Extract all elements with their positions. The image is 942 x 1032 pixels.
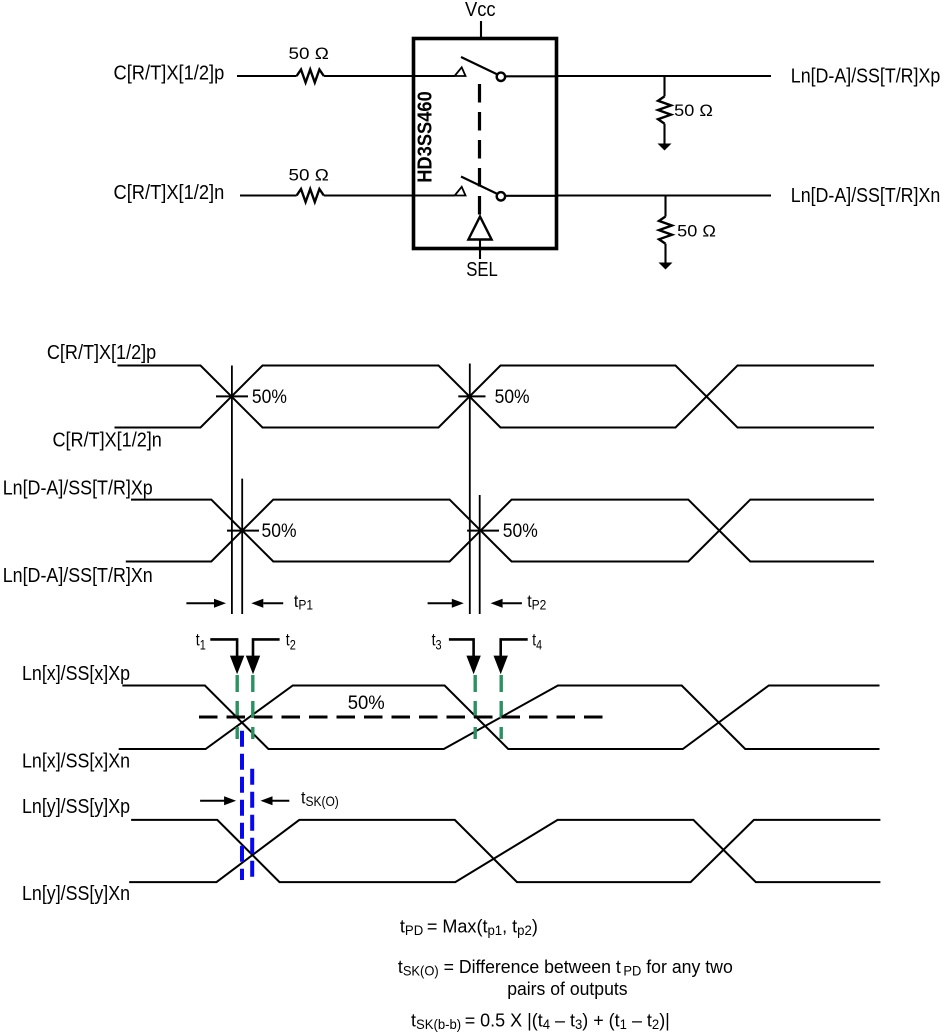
wire vertical marker V1b — [241, 479, 243, 614]
op-amp U1 HD3SS460 box — [414, 39, 557, 249]
wire R4 to ground — [664, 244, 666, 263]
svg-text:Vcc: Vcc — [465, 0, 496, 21]
wire output p — [557, 75, 772, 77]
svg-text:tSK(O) = Difference between t: tSK(O) = Difference between t PD for any… — [398, 956, 733, 978]
callout t4 line — [501, 639, 528, 658]
switch SW1 arm — [461, 57, 498, 75]
svg-text:50%: 50% — [503, 521, 538, 542]
arrow t4 — [494, 656, 508, 675]
svg-text:50 Ω: 50 Ω — [289, 44, 329, 63]
arrow t1 — [230, 656, 244, 675]
wire waveform1 n — [115, 366, 875, 428]
label tP2 — [527, 591, 546, 613]
dimension tP1 right arrow — [263, 602, 283, 604]
wire vertical marker V2b — [479, 495, 481, 614]
wire waveform2 n — [126, 500, 874, 562]
switch SW1 throw contact triangle — [455, 67, 466, 76]
marker t2 green dashed — [251, 675, 254, 739]
wire waveform2 p — [131, 500, 874, 562]
svg-text:pairs of outputs: pairs of outputs — [507, 978, 627, 999]
svg-text:50 Ω: 50 Ω — [674, 101, 713, 120]
resistor R4 zigzag — [659, 217, 672, 244]
wire vertical marker V2a — [469, 364, 471, 615]
label tP1 — [294, 591, 313, 613]
svg-text:50 Ω: 50 Ω — [289, 166, 329, 185]
dimension tP1 left arrow — [186, 602, 215, 604]
switch SW2 throw contact triangle — [455, 187, 466, 196]
dimension tSK(O) left arrow — [200, 800, 225, 802]
wire input p left segment — [237, 75, 297, 77]
svg-text:50%: 50% — [262, 521, 297, 542]
wire input n left segment — [240, 194, 297, 196]
wire input p to box — [324, 75, 414, 77]
svg-text:SEL: SEL — [466, 259, 498, 281]
wire vertical marker V1a — [231, 366, 233, 615]
svg-text:C[R/T]X[1/2]n: C[R/T]X[1/2]n — [114, 182, 225, 204]
wire inside box p — [415, 75, 455, 77]
wire SEL stem — [479, 240, 481, 260]
dimension tP2 right arrow — [503, 602, 522, 604]
equation tSK(O) — [398, 956, 733, 978]
wire from SW2 to box edge — [505, 195, 556, 197]
tick 50% wf1 c1 — [216, 395, 248, 397]
tick 50% wf2 c2 — [467, 530, 499, 532]
callout t3 line — [449, 639, 474, 658]
wire input n to box — [324, 194, 455, 196]
svg-text:50%: 50% — [348, 693, 385, 714]
svg-text:Ln[y]/SS[y]Xp: Ln[y]/SS[y]Xp — [22, 796, 130, 818]
tick 50% wf2 c1 — [227, 530, 259, 532]
switch SW1 pole circle — [497, 73, 505, 81]
resistor R3 zigzag — [658, 96, 671, 123]
svg-text:Ln[D-A]/SS[T/R]Xn: Ln[D-A]/SS[T/R]Xn — [791, 185, 941, 207]
label t2 — [286, 631, 296, 653]
label tSK(O) — [301, 788, 339, 810]
resistor R4 pulldown n stem — [664, 196, 666, 217]
ground symbol p — [658, 144, 672, 151]
arrow t2 — [246, 656, 260, 675]
svg-text:Ln[D-A]/SS[T/R]Xn: Ln[D-A]/SS[T/R]Xn — [3, 565, 153, 587]
svg-text:50%: 50% — [495, 387, 530, 408]
buffer U2 SEL triangle — [468, 217, 491, 240]
callout t1 line — [210, 639, 237, 658]
marker t3 green dashed — [474, 675, 477, 739]
marker blue dashed b1 — [240, 731, 244, 880]
dimension tP2 left arrow — [428, 602, 452, 604]
wire output n — [557, 194, 772, 196]
switch SW2 arm — [461, 177, 498, 195]
label t1 — [196, 631, 206, 653]
svg-text:C[R/T]X[1/2]p: C[R/T]X[1/2]p — [47, 342, 156, 364]
dimension tSK(O) right arrow — [273, 800, 290, 802]
label t3 — [432, 631, 442, 653]
svg-text:Ln[D-A]/SS[T/R]Xp: Ln[D-A]/SS[T/R]Xp — [791, 66, 941, 88]
wire waveform4 p — [131, 820, 880, 882]
arrow t3 — [466, 656, 480, 675]
wire waveform1 p — [118, 366, 875, 428]
svg-text:Ln[D-A]/SS[T/R]Xp: Ln[D-A]/SS[T/R]Xp — [3, 478, 153, 500]
marker blue dashed b2 — [250, 769, 254, 884]
resistor R2 50ohm series n — [297, 189, 324, 202]
wire Vcc to box — [480, 21, 482, 40]
equation tSK(b-b) — [411, 1009, 670, 1032]
svg-text:50%: 50% — [252, 387, 287, 408]
resistor R1 50ohm series p — [297, 70, 324, 83]
svg-text:HD3SS460: HD3SS460 — [415, 91, 437, 183]
50% reference dashed line — [199, 716, 607, 719]
wire waveform4 n — [129, 820, 880, 882]
marker t1 green dashed — [235, 675, 238, 739]
switch SW2 pole circle — [497, 192, 505, 200]
wire from SW1 to box edge — [505, 75, 556, 77]
svg-text:Ln[y]/SS[y]Xn: Ln[y]/SS[y]Xn — [22, 883, 130, 905]
resistor R3 pulldown p stem — [663, 76, 665, 96]
wire SEL control dashed — [478, 84, 481, 216]
svg-text:50 Ω: 50 Ω — [677, 222, 716, 241]
ground symbol n — [659, 263, 673, 270]
wire R3 to ground — [663, 124, 665, 144]
label t4 — [532, 631, 542, 653]
wire waveform3 n — [119, 686, 880, 750]
svg-text:C[R/T]X[1/2]p: C[R/T]X[1/2]p — [114, 63, 225, 85]
svg-text:Ln[x]/SS[x]Xn: Ln[x]/SS[x]Xn — [22, 751, 130, 773]
marker t4 green dashed — [500, 675, 503, 739]
svg-text:Ln[x]/SS[x]Xp: Ln[x]/SS[x]Xp — [22, 663, 130, 685]
tick 50% wf1 c2 — [458, 395, 485, 397]
wire waveform3 p — [122, 686, 879, 750]
equation tPD — [400, 915, 538, 938]
svg-text:C[R/T]X[1/2]n: C[R/T]X[1/2]n — [53, 430, 162, 452]
callout t2 line — [253, 639, 280, 658]
